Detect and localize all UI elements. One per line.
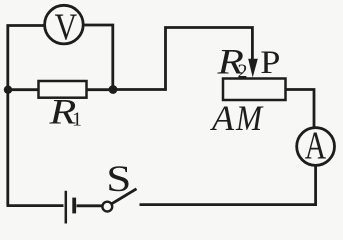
switch S label bbox=[106, 158, 131, 199]
slider P label bbox=[260, 44, 280, 81]
wire: bottom-left corner to battery bbox=[7, 204, 64, 207]
battery positive plate (long) bbox=[65, 191, 68, 224]
svg-text:A: A bbox=[210, 98, 235, 138]
svg-text:V: V bbox=[55, 6, 78, 49]
wire: node B right, up and across to slider arrow bbox=[113, 28, 252, 90]
wire: voltmeter right lead to top of node B bbox=[84, 25, 113, 90]
wire: battery right terminal to switch pivot bbox=[77, 204, 103, 207]
svg-text:P: P bbox=[260, 44, 280, 81]
wire: resistor R1 right lead to node B bbox=[87, 88, 114, 91]
resistor R1 label bbox=[48, 91, 76, 131]
voltmeter U-V circle bbox=[45, 5, 84, 44]
switch lever bbox=[112, 189, 137, 204]
ammeter A label bbox=[305, 124, 326, 167]
wire: rheostat right lead to ammeter top bbox=[286, 90, 315, 128]
battery negative plate (short thick) bbox=[72, 198, 76, 214]
slider arrow head P bbox=[248, 59, 258, 78]
svg-text:A: A bbox=[305, 124, 326, 167]
voltmeter V label bbox=[55, 6, 78, 49]
wire: ammeter bottom down and along bottom to switch bbox=[140, 166, 316, 205]
switch pivot circle bbox=[102, 202, 112, 212]
wire: left vertical from top-left corner down to bottom-left corner bbox=[8, 26, 45, 206]
resistor R1 body bbox=[39, 81, 87, 98]
wire: node A to resistor R1 left lead bbox=[8, 88, 39, 91]
svg-text:M: M bbox=[235, 99, 264, 138]
node B (right junction dot) bbox=[109, 85, 118, 94]
node A (left junction dot) bbox=[4, 86, 12, 94]
rheostat R2 label bbox=[216, 42, 243, 82]
svg-text:1: 1 bbox=[72, 109, 82, 131]
ammeter U-A circle bbox=[297, 128, 335, 166]
rheostat R2 body bbox=[223, 79, 286, 101]
